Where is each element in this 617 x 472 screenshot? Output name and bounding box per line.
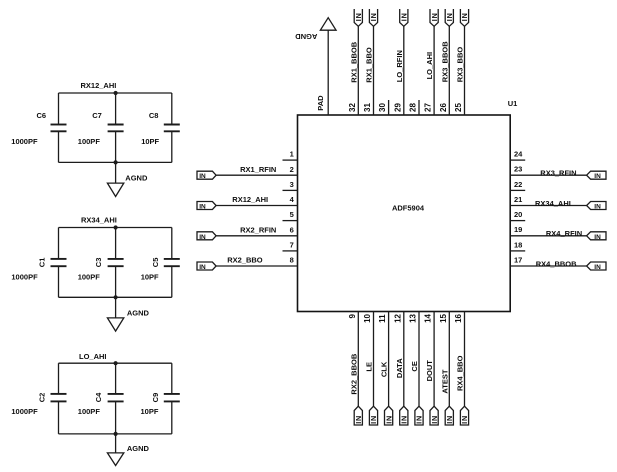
svg-text:ATEST: ATEST (440, 369, 449, 393)
svg-text:20: 20 (514, 210, 522, 219)
junction bank3 top (114, 361, 118, 365)
capacitor C9 plates (164, 393, 180, 395)
pin 5 stub (283, 220, 298, 222)
svg-text:100PF: 100PF (78, 137, 101, 146)
pin 28 stub (418, 100, 420, 115)
capacitor C3 leads (115, 228, 117, 259)
wire pin 17 net RX4_BBOB (510, 265, 586, 267)
svg-text:3: 3 (290, 180, 294, 189)
junction bank1 bottom (114, 160, 118, 164)
wire pin 29 net LO_RFIN (403, 26, 405, 115)
svg-text:RX1_RFIN: RX1_RFIN (240, 165, 276, 174)
wire pin 27 net LO_AHI (433, 26, 435, 115)
svg-text:IN: IN (369, 12, 378, 21)
wire bank1 top rail (59, 92, 172, 94)
ground AGND symbol bank1 (down triangle) (107, 183, 123, 196)
capacitor C1 leads (58, 228, 60, 259)
svg-text:1000PF: 1000PF (11, 407, 38, 416)
svg-text:IN: IN (460, 12, 469, 21)
wire exposed PAD to AGND (327, 30, 329, 115)
svg-text:CE: CE (410, 361, 419, 371)
port IN (pin 29) (400, 9, 408, 26)
wire pin 16 net RX4_BBO (464, 312, 466, 407)
port IN (pin 25) (460, 9, 468, 26)
svg-text:IN: IN (199, 234, 206, 241)
svg-text:U1: U1 (508, 99, 518, 108)
wire pin 21 net RX34_AHI (510, 205, 586, 207)
svg-text:1000PF: 1000PF (11, 137, 38, 146)
svg-text:C9: C9 (151, 393, 160, 403)
svg-text:RX12_AHI: RX12_AHI (232, 195, 268, 204)
svg-text:CLK: CLK (380, 361, 389, 377)
svg-text:IN: IN (594, 204, 601, 211)
ground AGND symbol (top, up triangle) (320, 18, 336, 31)
port IN (pin 6) (197, 232, 216, 240)
svg-text:IN: IN (199, 264, 206, 271)
svg-text:RX1_BBO: RX1_BBO (365, 47, 374, 83)
svg-text:23: 23 (514, 165, 522, 174)
svg-text:10PF: 10PF (141, 137, 159, 146)
port IN (pin 4) (197, 202, 216, 210)
wire bank1 bottom rail (59, 161, 172, 163)
wire pin 32 net RX1_BBOB (357, 26, 359, 115)
svg-text:IN: IN (430, 415, 439, 424)
wire bank3 bottom rail (59, 433, 172, 435)
svg-text:21: 21 (514, 195, 522, 204)
svg-text:IN: IN (415, 415, 424, 424)
capacitor C2 plates (51, 393, 67, 395)
svg-text:IN: IN (594, 173, 601, 180)
svg-text:IN: IN (354, 12, 363, 21)
svg-text:IN: IN (400, 415, 409, 424)
svg-text:C3: C3 (94, 258, 103, 268)
svg-text:AGND: AGND (127, 309, 150, 318)
svg-text:22: 22 (514, 180, 522, 189)
pin 7 stub (283, 250, 298, 252)
port IN (pin 32) (354, 9, 362, 26)
svg-text:RX4_BBOB: RX4_BBOB (536, 259, 577, 268)
ground AGND symbol bank2 (down triangle) (107, 318, 123, 331)
svg-text:16: 16 (454, 313, 463, 322)
svg-text:IN: IN (384, 415, 393, 424)
wire bank3 to ground (115, 434, 117, 453)
pin 20 stub (510, 220, 525, 222)
svg-text:LO_AHI: LO_AHI (425, 52, 434, 80)
capacitor C6 leads (58, 93, 60, 125)
svg-text:4: 4 (290, 195, 295, 204)
wire pin 15 net ATEST (448, 312, 450, 407)
capacitor C6 plates (51, 124, 67, 126)
port IN (pin 10) (369, 406, 377, 425)
svg-text:IN: IN (594, 234, 601, 241)
svg-text:IN: IN (369, 415, 378, 424)
svg-text:IN: IN (445, 12, 454, 21)
port IN (pin 27) (430, 9, 438, 26)
port IN (pin 26) (445, 9, 453, 26)
svg-text:100PF: 100PF (78, 407, 101, 416)
svg-text:RX1_BBOB: RX1_BBOB (349, 41, 358, 82)
capacitor C4 plates (108, 393, 124, 395)
svg-text:27: 27 (424, 103, 433, 112)
svg-text:RX2_BBOB: RX2_BBOB (349, 353, 358, 394)
wire pin 12 net DATA (403, 312, 405, 407)
capacitor C7 plates (108, 124, 124, 126)
capacitor C8 leads (171, 93, 173, 125)
svg-text:24: 24 (514, 150, 523, 159)
svg-text:10PF: 10PF (141, 272, 159, 281)
svg-text:30: 30 (378, 103, 387, 112)
svg-text:IN: IN (354, 415, 363, 424)
capacitor C4 leads (115, 363, 117, 394)
svg-text:RX3_BBO: RX3_BBO (456, 47, 465, 83)
svg-text:IN: IN (199, 173, 206, 180)
wire pin 11 net CLK (388, 312, 390, 407)
svg-text:RX2_RFIN: RX2_RFIN (240, 225, 276, 234)
wire bank3 top rail (59, 362, 172, 364)
svg-text:IN: IN (199, 204, 206, 211)
svg-text:10PF: 10PF (141, 407, 159, 416)
capacitor C8 plates (164, 124, 180, 126)
wire bank2 top rail (59, 227, 172, 229)
port IN (pin 19) (587, 232, 606, 240)
svg-text:100PF: 100PF (78, 272, 101, 281)
pin 18 stub (510, 250, 525, 252)
svg-text:13: 13 (409, 313, 418, 322)
port IN (pin 9) (354, 406, 362, 425)
svg-text:LO_RFIN: LO_RFIN (395, 50, 404, 82)
capacitor C3 plates (108, 258, 124, 260)
port IN (pin 11) (385, 406, 393, 425)
capacitor C5 leads (171, 228, 173, 259)
port IN (pin 21) (587, 202, 606, 210)
wire pin 31 net RX1_BBO (373, 26, 375, 115)
port IN (pin 8) (197, 262, 216, 270)
svg-text:RX3_BBOB: RX3_BBOB (440, 41, 449, 82)
pin 3 stub (283, 189, 298, 191)
svg-text:IN: IN (460, 415, 469, 424)
svg-text:IN: IN (594, 264, 601, 271)
capacitor C7 leads (115, 93, 117, 125)
wire pin 13 net CE (418, 312, 420, 407)
svg-text:RX34_AHI: RX34_AHI (535, 199, 571, 208)
pin 24 stub (510, 159, 525, 161)
svg-text:DATA: DATA (395, 358, 404, 378)
port IN (pin 16) (460, 406, 468, 425)
capacitor C9 leads (171, 363, 173, 394)
svg-text:DOUT: DOUT (425, 360, 434, 382)
port IN (pin 17) (587, 262, 606, 270)
wire bank1 to ground (115, 162, 117, 183)
junction bank1 top (114, 91, 118, 95)
svg-text:C5: C5 (151, 258, 160, 268)
svg-text:RX12_AHI: RX12_AHI (81, 81, 117, 90)
ground AGND symbol bank3 (down triangle) (107, 453, 123, 466)
svg-text:RX2_BBO: RX2_BBO (227, 256, 263, 265)
capacitor C2 leads (58, 363, 60, 394)
svg-text:C6: C6 (37, 111, 47, 120)
port IN (pin 2) (197, 171, 216, 179)
svg-text:AGND: AGND (295, 32, 318, 41)
svg-text:28: 28 (409, 103, 418, 112)
svg-text:AGND: AGND (127, 444, 150, 453)
wire pin 19 net RX4_RFIN (510, 235, 586, 237)
junction bank2 top (114, 225, 118, 229)
wire pin 2 net RX1_RFIN (216, 174, 297, 176)
svg-text:C1: C1 (37, 258, 46, 268)
svg-text:18: 18 (514, 240, 522, 249)
junction bank2 bottom (114, 295, 118, 299)
svg-text:29: 29 (393, 103, 402, 112)
svg-text:7: 7 (290, 241, 294, 250)
port IN (pin 13) (415, 406, 423, 425)
pin 22 stub (510, 189, 525, 191)
wire pin 6 net RX2_RFIN (216, 235, 297, 237)
junction bank3 bottom (114, 432, 118, 436)
wire pin 26 net RX3_BBOB (448, 26, 450, 115)
IC U1 ADF5904 body (298, 115, 511, 312)
svg-text:12: 12 (393, 313, 402, 322)
svg-text:15: 15 (439, 313, 448, 322)
svg-text:25: 25 (454, 103, 463, 112)
svg-text:10: 10 (363, 313, 372, 322)
wire pin 4 net RX12_AHI (216, 205, 297, 207)
svg-text:1: 1 (290, 150, 294, 159)
svg-text:C8: C8 (149, 111, 159, 120)
svg-text:17: 17 (514, 255, 522, 264)
wire pin 10 net LE (373, 312, 375, 407)
wire pin 9 net RX2_BBOB (357, 312, 359, 407)
svg-text:26: 26 (439, 103, 448, 112)
port IN (pin 23) (587, 171, 606, 179)
svg-text:RX34_AHI: RX34_AHI (81, 216, 117, 225)
svg-text:IN: IN (430, 12, 439, 21)
svg-text:14: 14 (424, 313, 433, 322)
wire bank2 to ground (115, 297, 117, 318)
svg-text:2: 2 (290, 165, 294, 174)
port IN (pin 14) (430, 406, 438, 425)
svg-text:19: 19 (514, 225, 522, 234)
svg-text:C4: C4 (94, 392, 103, 402)
port IN (pin 15) (445, 406, 453, 425)
svg-text:5: 5 (290, 210, 294, 219)
capacitor C5 plates (164, 258, 180, 260)
svg-text:LO_AHI: LO_AHI (79, 352, 107, 361)
svg-text:C7: C7 (92, 111, 102, 120)
svg-text:32: 32 (348, 103, 357, 112)
svg-text:9: 9 (348, 314, 357, 319)
svg-text:LE: LE (365, 362, 374, 372)
svg-text:11: 11 (378, 314, 387, 323)
wire pin 14 net DOUT (433, 312, 435, 407)
svg-text:RX4_RFIN: RX4_RFIN (546, 229, 582, 238)
wire pin 25 net RX3_BBO (464, 26, 466, 115)
svg-text:AGND: AGND (125, 173, 148, 182)
svg-text:PAD: PAD (316, 95, 325, 111)
capacitor C1 plates (51, 258, 67, 260)
pin 30 stub (388, 100, 390, 115)
svg-text:ADF5904: ADF5904 (392, 204, 425, 213)
svg-text:31: 31 (363, 103, 372, 112)
svg-text:IN: IN (445, 415, 454, 424)
wire pin 23 net RX3_RFIN (510, 174, 586, 176)
svg-text:RX4_BBO: RX4_BBO (456, 355, 465, 391)
svg-text:RX3_RFIN: RX3_RFIN (540, 169, 576, 178)
wire pin 8 net RX2_BBO (216, 265, 297, 267)
port IN (pin 12) (400, 406, 408, 425)
svg-text:C2: C2 (37, 393, 46, 403)
svg-text:6: 6 (290, 225, 294, 234)
wire bank2 bottom rail (59, 296, 172, 298)
pin 1 stub (283, 159, 298, 161)
svg-text:IN: IN (400, 12, 409, 21)
svg-text:1000PF: 1000PF (11, 272, 38, 281)
svg-text:8: 8 (290, 256, 294, 265)
port IN (pin 31) (369, 9, 377, 26)
